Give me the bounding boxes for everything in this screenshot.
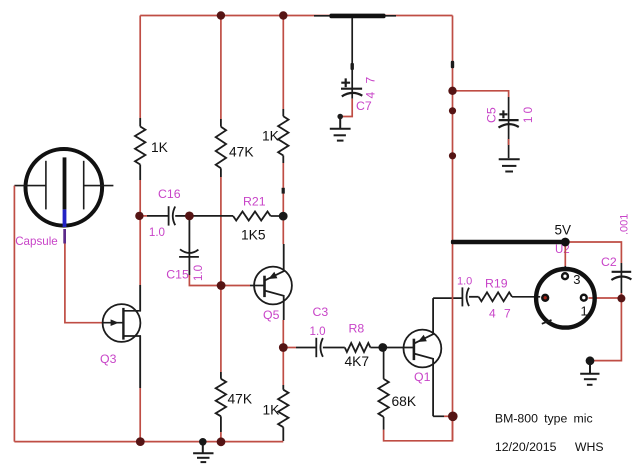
wire capsule output down to Q3 gate	[65, 244, 103, 323]
node supply via 2	[449, 152, 456, 159]
capsule diaphragm bar	[63, 157, 67, 209]
svg-text:1.0: 1.0	[457, 276, 472, 288]
resistor R1 1K (top-left column)	[135, 118, 145, 180]
wire third column (to R21 junction, tick, Q5 emitter)	[282, 163, 284, 244]
pin 2 (XLR left)	[542, 295, 548, 301]
svg-text:C7: C7	[356, 99, 372, 113]
wire pin1 to right column	[588, 297, 621, 299]
wire left column lower (Q3 source down to bottom rail)	[139, 336, 141, 388]
svg-text:1.0: 1.0	[192, 265, 205, 281]
tick on supply column	[451, 61, 454, 69]
tick on C7 stem	[351, 63, 354, 70]
svg-text:C5: C5	[485, 107, 499, 123]
svg-text:1 0: 1 0	[522, 107, 535, 123]
pin 3 (XLR top)	[562, 273, 568, 279]
resistor 68K	[378, 379, 388, 417]
wire C16 row left stub	[139, 215, 147, 217]
svg-text:3: 3	[573, 272, 580, 287]
wire left edge column	[13, 186, 15, 442]
wire red blip below C5	[508, 139, 510, 145]
node supply via 1	[449, 107, 456, 114]
connector U2 XLR body	[536, 269, 595, 328]
transistor Q5 (PNP)	[254, 244, 292, 320]
node top rail junction A	[217, 11, 225, 19]
node bottom ground junction	[199, 438, 207, 446]
wire middle column mid	[220, 177, 222, 285]
wire bottom rail	[14, 441, 283, 443]
node Q1 collector junction	[448, 412, 458, 422]
resistor R21	[233, 212, 271, 221]
svg-text:1: 1	[581, 304, 588, 319]
wire Q1 emitter row to coupling cap	[433, 297, 462, 299]
svg-text:R21: R21	[243, 195, 266, 209]
svg-text:4 7: 4 7	[489, 306, 513, 320]
capacitor C3	[296, 338, 345, 357]
ground (below C5)	[499, 159, 520, 171]
svg-text:1K: 1K	[262, 129, 280, 144]
resistor R4 47K (lower middle column)	[216, 372, 226, 432]
svg-text:.001: .001	[619, 214, 631, 235]
capacitor 1.0 (output coupling)	[462, 287, 478, 306]
capacitor C15 (vertical, curved plate up)	[179, 216, 199, 275]
wire middle column (47K top)	[220, 16, 222, 120]
resistor R19	[479, 292, 512, 301]
capsule right plate	[83, 161, 85, 210]
resistor R68K column	[383, 348, 385, 379]
svg-text:Q3: Q3	[100, 352, 117, 366]
tick on third column wire	[282, 188, 285, 194]
node C7-ground corner	[337, 114, 343, 120]
wire left column top (to 1K)	[139, 16, 141, 119]
node bottom rail col2 junction	[217, 437, 226, 446]
power bar top (thick)	[314, 15, 396, 17]
resistor R8	[345, 343, 371, 352]
svg-text:C3: C3	[313, 305, 329, 319]
svg-text:68K: 68K	[392, 394, 417, 409]
wire capsule right lead stub	[84, 185, 114, 187]
svg-text:4K7: 4K7	[345, 354, 370, 369]
transistor Q1 (PNP)	[404, 298, 442, 416]
resistor R2 47K (upper middle column)	[216, 119, 226, 177]
arrow Q5 emitter	[268, 272, 277, 279]
svg-text:Q5: Q5	[263, 308, 280, 322]
wire third column lower (1K bottom)	[282, 348, 284, 386]
node C15/Q5 base junction	[217, 281, 226, 290]
wire R8 junction to Q1 base	[383, 347, 414, 349]
svg-text:1K: 1K	[263, 403, 281, 418]
svg-text:C2: C2	[601, 255, 617, 269]
svg-text:47K: 47K	[228, 392, 253, 407]
wire 5V node to C2 top	[565, 242, 621, 263]
node C5 tap junction	[448, 87, 456, 95]
capacitor C7 (electrolytic)	[341, 78, 362, 98]
node R8/Q1 base junction	[378, 343, 387, 352]
capsule left plate	[45, 161, 47, 210]
transistor Q3 (JFET)	[103, 285, 141, 388]
wire capsule left lead	[14, 185, 46, 187]
svg-text:4 7: 4 7	[364, 74, 378, 98]
wire C15 bottom to Q5 base	[189, 275, 250, 286]
wire right column down to ground	[590, 298, 621, 360]
arrow Q1 emitter	[418, 335, 427, 342]
ground (bottom center)	[193, 442, 213, 462]
power bar 5V (thick)	[451, 240, 566, 245]
capacitor C5 (electrolytic)	[499, 97, 519, 158]
svg-text:R8: R8	[349, 322, 365, 336]
capacitor C16	[147, 206, 189, 225]
node 5V junction	[561, 238, 570, 247]
svg-text:12/20/2015 WHS: 12/20/2015 WHS	[495, 440, 604, 454]
pin 1 (XLR right)	[581, 295, 587, 301]
node Q5 collector junction	[279, 343, 288, 352]
resistor R5 1K (lower third column)	[278, 385, 288, 441]
node pin1/C2 junction	[617, 294, 625, 302]
wire C7 bottom to ground	[340, 99, 352, 120]
notch on XLR body	[542, 320, 552, 324]
svg-text:5V: 5V	[555, 223, 572, 238]
wire Q1 collector to supply column	[433, 415, 444, 417]
node top rail junction B	[279, 11, 287, 19]
svg-text:1.0: 1.0	[310, 325, 326, 338]
capsule body	[26, 149, 103, 226]
svg-text:C16: C16	[158, 187, 181, 201]
wire C2 bottom to pin1 junction	[620, 293, 622, 298]
wire left column mid (1K to C16 junction to Q3 drain)	[139, 180, 141, 285]
wire third column top (1K)	[282, 16, 284, 110]
wire R21 leads	[189, 215, 233, 217]
svg-text:Capsule: Capsule	[15, 235, 58, 248]
svg-text:1K5: 1K5	[241, 228, 266, 243]
svg-text:47K: 47K	[229, 145, 254, 160]
wire C7 stem (black)	[351, 18, 353, 88]
node bottom rail col1 junction	[136, 437, 145, 446]
wire supply column	[452, 16, 454, 441]
capsule diaphragm bar blue part	[63, 209, 67, 227]
node R21 right junction	[279, 212, 288, 221]
svg-text:Q1: Q1	[414, 370, 431, 384]
wire Q5 collector to C3 row	[282, 320, 284, 348]
resistor R3 1K (upper third column)	[278, 109, 288, 163]
node C16 left junction	[135, 212, 143, 220]
wire 5V node down to XLR pin3	[564, 242, 566, 266]
ground (bottom right)	[580, 361, 599, 385]
svg-text:1.0: 1.0	[149, 226, 165, 239]
wire C3/R8 row left stub	[283, 347, 296, 349]
svg-text:R19: R19	[485, 277, 508, 291]
svg-text:BM-800 type mic: BM-800 type mic	[495, 412, 593, 426]
svg-text:1K: 1K	[151, 140, 169, 155]
wire C5 branch	[453, 91, 509, 97]
svg-text:C15: C15	[166, 268, 189, 282]
wire 68K bottom rail to supply column	[384, 416, 453, 441]
node right ground junction	[586, 356, 595, 365]
ground (below C7)	[330, 118, 351, 141]
arrow Q3 gate	[111, 319, 119, 326]
wire top rail	[140, 15, 452, 17]
capacitor C2	[611, 263, 631, 293]
node C16/C15 junction	[185, 212, 194, 221]
capsule lead purple part	[63, 229, 66, 244]
